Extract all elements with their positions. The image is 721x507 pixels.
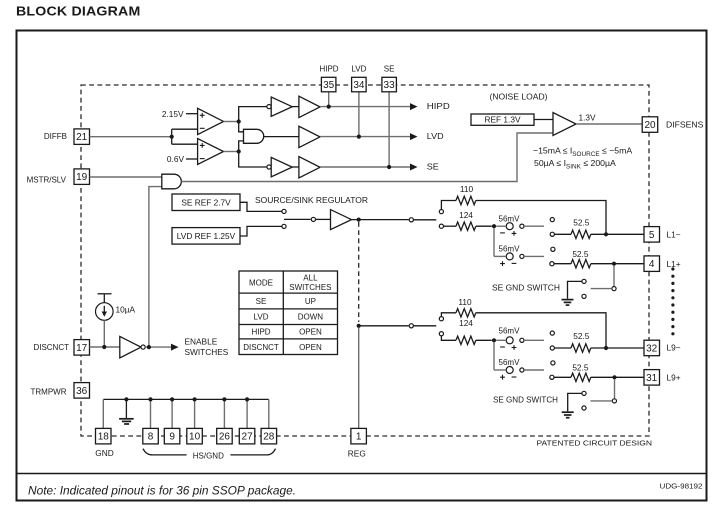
node pin 27 junction [245, 397, 249, 401]
wire contact to resistor 124 [444, 225, 456, 227]
pin 5 L1- [644, 227, 660, 243]
svg-text:L1−: L1− [667, 229, 681, 239]
node pin 26 junction [222, 397, 226, 401]
svg-text:2.15V: 2.15V [162, 109, 184, 119]
ground bus [103, 398, 268, 400]
current source stem [103, 294, 105, 303]
svg-text:56mV: 56mV [499, 243, 520, 253]
node L9+ junction [612, 375, 616, 379]
wire U2 out up to AND gate [239, 141, 244, 152]
wire 56mV 2 blade [524, 255, 544, 257]
wire contact to resistor 52.5 no3 [555, 347, 572, 349]
56mV source 4 circle [506, 367, 513, 374]
inverter U4 input bubble [267, 105, 271, 109]
56mV source 1 circle [506, 223, 513, 230]
wire contact to resistor 52.5 no1 [555, 233, 572, 235]
svg-text:HIPD: HIPD [251, 328, 270, 337]
resistor 124 (upper) [456, 222, 476, 230]
svg-text:PATENTED CIRCUIT DESIGN: PATENTED CIRCUIT DESIGN [537, 438, 653, 447]
switch pole contact lower network [409, 324, 413, 328]
svg-text:SE GND SWITCH: SE GND SWITCH [493, 394, 558, 404]
node U2 output [237, 149, 241, 153]
wire DISCNCT from pin 17 [90, 346, 120, 348]
switch contact upper 124 [439, 224, 443, 228]
node pin 10 junction [193, 397, 197, 401]
pin 32 L9- [644, 340, 660, 356]
svg-text:DIFSENS: DIFSENS [666, 120, 704, 130]
svg-text:27: 27 [242, 432, 254, 443]
wire enable to AND lower input [149, 187, 162, 347]
wire to 56mV source 4 [494, 369, 506, 371]
mode table row line 3 [239, 324, 338, 326]
SE GND switch contact A (lower) [582, 391, 586, 395]
svg-text:HS/GND: HS/GND [193, 451, 224, 460]
ENABLE SWITCHES arrow [171, 344, 179, 351]
svg-text:10: 10 [189, 432, 201, 443]
svg-text:SWITCHES: SWITCHES [185, 347, 229, 357]
wire pin 9 stub [171, 399, 173, 428]
svg-text:124: 124 [459, 318, 473, 328]
svg-text:33: 33 [384, 80, 396, 91]
inverter U4 (HIPD path) [271, 97, 292, 116]
resistor 124 (lower) [456, 336, 476, 344]
U1 - sign [200, 127, 205, 129]
mode table row line 4 [239, 338, 338, 340]
SE REF 2.7V box [172, 194, 240, 211]
node DISCNCT junction [102, 345, 106, 349]
SE GND switch common contact (upper) [612, 287, 616, 291]
SE output arrow [410, 164, 418, 171]
svg-text:124: 124 [459, 210, 473, 220]
svg-text:20: 20 [644, 120, 656, 131]
switch pole contact [311, 217, 315, 221]
switch contact after 56mV 2 [520, 254, 524, 258]
svg-text:52.5: 52.5 [572, 249, 589, 259]
mode table row line 2 [239, 308, 338, 310]
node pin 9 junction [170, 397, 174, 401]
svg-text:HIPD: HIPD [427, 101, 450, 111]
node L1+ junction [612, 262, 616, 266]
ground (lower SE GND) [562, 411, 574, 413]
svg-text:50µA ≤ ISINK ≤ 200µA: 50µA ≤ ISINK ≤ 200µA [534, 158, 616, 171]
svg-text:1.3V: 1.3V [579, 113, 597, 123]
switch contact after 56mV 3 [520, 338, 524, 342]
wire tap down to pin 1 REG [358, 328, 360, 429]
svg-text:MODE: MODE [249, 278, 273, 287]
switch contact upper 110 [439, 210, 443, 214]
wire contact to resistor 110 lower [441, 313, 456, 317]
svg-text:SWITCHES: SWITCHES [289, 283, 331, 292]
svg-text:TRMPWR: TRMPWR [31, 387, 67, 396]
pin 8 [143, 428, 159, 444]
switch contact lower 110 [439, 317, 443, 321]
56mV source 2 circle [506, 253, 513, 260]
switch contact from SE REF [282, 209, 286, 213]
svg-text:21: 21 [76, 132, 88, 143]
resistor 110 (upper) [456, 196, 476, 204]
resistor 52.5 no3 [571, 344, 591, 352]
wire contact to resistor 52.5 no2 [554, 263, 571, 265]
wire pin 8 stub [150, 399, 152, 428]
pin 18 GND [96, 428, 112, 444]
svg-text:LVD: LVD [254, 313, 269, 322]
wire U1 output [224, 121, 239, 123]
SE GND switch common contact (lower) [612, 399, 616, 403]
pin 19 MSTR/SLV [74, 169, 90, 185]
wire 52.5 no4 to pin 31 [591, 376, 644, 378]
switch blade wire [284, 218, 311, 220]
pin 36 TRMPWR [74, 383, 90, 399]
svg-text:34: 34 [353, 80, 365, 91]
svg-text:LVD: LVD [351, 65, 366, 74]
mode table frame [239, 271, 338, 355]
wire DIFFB vertical branch [171, 129, 173, 144]
wire 2.15V to comparator U1 + [186, 113, 198, 115]
inverter U12 (disconnect) [120, 336, 141, 358]
current source I1 arrow [103, 306, 105, 313]
wire lower pole blade [413, 325, 436, 327]
switch contact to 52.5 no4 [550, 375, 554, 379]
wire to 56mV source 2 [494, 255, 506, 257]
wire node to 56mV source 3 [496, 339, 505, 341]
node enable junction [147, 345, 151, 349]
svg-text:ENABLE: ENABLE [185, 337, 218, 347]
node upper 124 output [492, 224, 496, 228]
wire U2 out down to inverter row [239, 152, 267, 168]
wire LVD row [320, 136, 410, 138]
LVD output arrow [410, 133, 418, 140]
wire 56mV 1 blade [524, 225, 544, 227]
SE GND switch bracket (lower) [568, 393, 582, 411]
ground symbol stem [125, 399, 127, 418]
56mV source 1 minus [500, 232, 505, 234]
switch contact after 56mV 1 [520, 224, 524, 228]
wire U9 output long run [181, 133, 553, 182]
pin 35 HIPD [321, 77, 336, 92]
svg-text:REF 1.3V: REF 1.3V [485, 115, 521, 125]
wire 0.6V to comparator U2 - [186, 158, 198, 160]
svg-text:31: 31 [646, 373, 658, 384]
svg-text:SE: SE [427, 162, 439, 172]
SE GND switch contact B (upper) [582, 294, 586, 298]
SE GND switch blade (lower) [590, 400, 612, 402]
switch contact after 56mV 4 [520, 368, 524, 372]
wire U7 to buffer U8 [292, 166, 299, 168]
svg-text:SOURCE/SINK REGULATOR: SOURCE/SINK REGULATOR [255, 195, 368, 205]
wire pin 10 stub [194, 399, 196, 428]
SE GND switch bracket (upper) [568, 281, 582, 298]
svg-text:DISCNCT: DISCNCT [33, 343, 69, 352]
svg-text:REG: REG [348, 448, 366, 458]
wire 56mV 3 blade [524, 339, 544, 341]
pin 28 [261, 428, 277, 444]
wire pin 18 stub [102, 399, 104, 428]
buffer U6 (LVD) [299, 126, 320, 147]
inverter U7 input bubble [267, 165, 271, 169]
svg-text:MSTR/SLV: MSTR/SLV [27, 176, 67, 185]
svg-text:DOWN: DOWN [298, 313, 324, 322]
pin 17 DISCNCT [74, 340, 90, 356]
wire 52.5 no1 to pin 5 [591, 233, 644, 235]
svg-text:56mV: 56mV [499, 357, 520, 367]
svg-text:4: 4 [649, 259, 655, 270]
pin 34 LVD [352, 77, 367, 92]
svg-text:10µA: 10µA [116, 304, 136, 314]
node LVD pin34 junction [357, 135, 361, 139]
56mV source 2 plus [500, 261, 505, 266]
note separator line [17, 473, 707, 475]
resistor 52.5 no2 [571, 260, 591, 268]
56mV source 4 minus [512, 376, 517, 378]
wire U4 to buffer U5 [292, 106, 299, 108]
node regulator output [357, 218, 361, 222]
wire SE REF to switch contact [240, 202, 282, 211]
svg-text:HIPD: HIPD [319, 65, 338, 74]
svg-text:0.6V: 0.6V [167, 154, 185, 164]
svg-text:56mV: 56mV [499, 326, 520, 336]
ground symbol [119, 418, 134, 420]
wire REF box to buffer U10 [534, 119, 553, 121]
IC boundary dashed box [81, 85, 649, 436]
wire contact to resistor 124 lower [441, 336, 456, 341]
node L1- junction [604, 232, 608, 236]
comparator U2 [198, 139, 224, 165]
switch pole contact upper network [409, 218, 413, 222]
AND gate U9 (master/slave) [162, 174, 182, 189]
wire pin 28 stub [268, 399, 270, 428]
current source I1 circle [96, 303, 114, 321]
switch contact to 52.5 no2 [550, 262, 554, 266]
buffer U8 (SE) [299, 157, 320, 178]
wire pin 27 stub [246, 399, 248, 428]
switch contact open stub 4 [551, 361, 555, 365]
wire current source to DISCNCT node [103, 320, 105, 347]
node pin 8 junction [148, 397, 152, 401]
LVD REF 1.25V box [172, 228, 240, 245]
wire L1+ node to SE GND switch [613, 266, 615, 287]
SE GND switch contact A (upper) [582, 279, 586, 283]
svg-text:UP: UP [305, 297, 316, 306]
wire SE row [320, 166, 410, 168]
wire LVD REF to switch contact [240, 226, 282, 236]
svg-text:L9+: L9+ [667, 372, 681, 382]
wire U3 to buffer U6 [264, 136, 299, 138]
ground (upper SE GND) [562, 299, 574, 301]
switch contact open stub 2 [551, 247, 555, 251]
wire U1 out up to inverter row [239, 107, 267, 122]
svg-text:(NOISE LOAD): (NOISE LOAD) [490, 92, 548, 102]
svg-text:Note: Indicated pinout is for: Note: Indicated pinout is for 36 pin SSO… [28, 485, 296, 497]
node SE pin33 junction [387, 165, 391, 169]
SE GND switch blade (upper) [591, 288, 612, 290]
wire pin33 to SE row [388, 92, 390, 168]
svg-text:DIFFB: DIFFB [44, 132, 67, 141]
inverter U7 (SE path) [271, 157, 292, 176]
56mV source 4 plus [500, 375, 505, 380]
56mV source 3 plus [512, 345, 517, 350]
svg-text:36: 36 [76, 386, 88, 397]
continuation dots (L2..L8) [671, 267, 674, 335]
wire 124 lower to node [476, 339, 492, 341]
wire 52.5 no2 to pin 4 [591, 263, 644, 265]
comparator U1 [198, 108, 224, 134]
svg-text:5: 5 [649, 230, 655, 241]
56mV source 2 minus [512, 262, 517, 264]
svg-text:SE: SE [384, 65, 395, 74]
svg-text:SE REF 2.7V: SE REF 2.7V [181, 197, 231, 207]
buffer U10 (1.3V driver) [553, 113, 576, 136]
56mV source 3 minus [500, 346, 505, 348]
node U1 output [237, 119, 241, 123]
mode table row line 1 [239, 292, 338, 294]
node lower 124 output [492, 338, 496, 342]
HIPD output arrow [410, 103, 418, 110]
svg-text:−15mA ≤ ISOURCE ≤ −5mA: −15mA ≤ ISOURCE ≤ −5mA [533, 145, 632, 158]
svg-text:LVD REF 1.25V: LVD REF 1.25V [177, 231, 236, 241]
pin 27 [239, 428, 255, 444]
wire upper pole blade [413, 219, 436, 221]
inverter U12 output bubble [141, 345, 145, 349]
svg-text:52.5: 52.5 [573, 331, 590, 341]
switch contact open stub 3 [550, 331, 554, 335]
wire contact to resistor 110 [441, 201, 456, 210]
wire pin 26 stub [223, 399, 225, 428]
wire U2 output [224, 151, 239, 153]
wire DIFFB from pin 21 [90, 136, 172, 138]
HS/GND brace left hook [143, 449, 187, 455]
svg-text:19: 19 [76, 172, 88, 183]
wire pole to buffer U11 [316, 218, 331, 220]
pin 21 DIFFB [74, 129, 90, 145]
U2 + sign [200, 143, 205, 148]
wire U10 output to pin 20 [576, 123, 642, 125]
current source rail [98, 293, 112, 295]
svg-text:SE: SE [256, 297, 267, 306]
svg-text:L9−: L9− [667, 342, 681, 352]
svg-text:DISCNCT: DISCNCT [243, 343, 279, 352]
resistor 52.5 no1 [571, 230, 591, 238]
wire node to 56mV source 1 [496, 225, 505, 227]
dashed wire regulator to lower tap [358, 222, 360, 322]
buffer U5 (HIPD) [299, 96, 320, 117]
pin 26 [217, 428, 233, 444]
pin 4 L1+ [644, 256, 660, 272]
wire U11 output to upper network [352, 219, 409, 221]
wire L9+ node to SE GND switch [614, 380, 616, 399]
svg-text:56mV: 56mV [499, 214, 520, 224]
wire 124 to node [476, 225, 492, 227]
wire U12 to enable arrow [145, 346, 171, 348]
pin 20 DIFSENS [642, 117, 658, 133]
svg-text:52.5: 52.5 [572, 363, 589, 373]
wire pin34 to LVD row [358, 92, 360, 137]
resistor 52.5 no4 [571, 373, 591, 381]
switch contact from LVD REF [282, 224, 286, 228]
wire drop to 56mV source 2 [493, 228, 495, 256]
resistor 110 (lower) [456, 309, 476, 317]
wire tap to lower network pole [359, 325, 409, 327]
node ground stem junction [124, 397, 128, 401]
HS/GND brace right hook [230, 449, 275, 455]
U1 + sign [200, 113, 205, 118]
wire U1 out down to AND gate [239, 122, 244, 132]
wire pin35 to HIPD row [328, 92, 330, 107]
U2 - sign [200, 158, 205, 160]
pin 33 SE [382, 77, 397, 92]
pin 1 REG [351, 428, 367, 444]
svg-text:1: 1 [356, 432, 362, 443]
switch contact lower 124 [439, 332, 443, 336]
svg-text:28: 28 [263, 432, 275, 443]
node DIFFB junction [170, 135, 174, 139]
svg-text:9: 9 [169, 432, 175, 443]
wire 56mV 4 blade [524, 369, 544, 371]
svg-text:BLOCK DIAGRAM: BLOCK DIAGRAM [16, 4, 140, 19]
svg-text:UDG-98192: UDG-98192 [660, 482, 703, 491]
svg-text:110: 110 [460, 184, 474, 194]
wire contact to resistor 52.5 no4 [554, 376, 571, 378]
node HIPD pin35 junction [327, 105, 331, 109]
svg-text:52.5: 52.5 [573, 217, 590, 227]
pin 10 [187, 428, 203, 444]
wire 110 lower to L9- node [476, 313, 606, 348]
svg-text:SE GND SWITCH: SE GND SWITCH [492, 283, 560, 293]
svg-text:18: 18 [98, 432, 110, 443]
56mV source 3 circle [506, 337, 513, 344]
56mV source 1 plus [512, 231, 517, 236]
node L9- junction [604, 346, 608, 350]
svg-text:32: 32 [646, 344, 658, 355]
pin 9 [164, 428, 180, 444]
svg-text:OPEN: OPEN [299, 328, 322, 337]
wire 52.5 no3 to pin 32 [591, 347, 644, 349]
svg-text:GND: GND [95, 448, 113, 458]
svg-text:ALL: ALL [303, 273, 318, 282]
node lower network tap [357, 324, 361, 328]
svg-text:L1+: L1+ [667, 259, 681, 269]
AND gate U3 (LVD path) [244, 129, 264, 143]
pin 31 L9+ [644, 370, 660, 386]
svg-text:110: 110 [458, 297, 472, 307]
svg-text:OPEN: OPEN [299, 343, 322, 352]
svg-text:LVD: LVD [427, 131, 444, 141]
wire drop to 56mV source 4 [493, 342, 495, 370]
switch contact to 52.5 no1 [550, 232, 554, 236]
buffer U11 (source/sink regulator) [331, 210, 352, 230]
svg-text:26: 26 [219, 432, 231, 443]
wire HIPD row [320, 106, 410, 108]
wire DIFFB to U2 + input [172, 143, 198, 145]
svg-text:17: 17 [76, 343, 88, 354]
wire 110 to L1- node [476, 201, 606, 235]
wire MSTR/SLV from pin 19 [90, 176, 162, 178]
wire DIFFB to U1 - input [172, 128, 198, 130]
svg-text:35: 35 [323, 80, 335, 91]
SE GND switch contact B (lower) [582, 406, 586, 410]
svg-text:8: 8 [148, 432, 154, 443]
REF 1.3V box [471, 114, 534, 125]
switch contact to 52.5 no3 [550, 346, 554, 350]
switch contact open stub 1 [550, 218, 554, 222]
mode table column divider [282, 271, 284, 355]
